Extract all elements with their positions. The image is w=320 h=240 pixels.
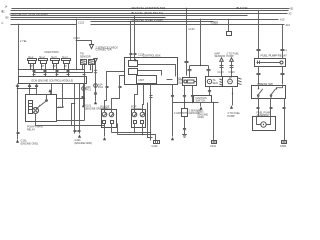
box B1 solenoid [178, 77, 196, 85]
S2 lower wire [228, 88, 241, 118]
svg-text:2 BLK/YEL HOT IN ON OR START: 2 BLK/YEL HOT IN ON OR START [10, 13, 49, 16]
ground arrow above relay [48, 89, 51, 95]
ground connector G101 mid [152, 141, 160, 149]
svg-text:PUMP: PUMP [227, 55, 235, 58]
purge solenoid box SB1 [101, 106, 117, 141]
svg-text:G550: G550 [280, 145, 287, 148]
solenoid ground bus [112, 85, 156, 141]
wire V3 x130 [130, 22, 133, 58]
svg-text:C210: C210 [210, 145, 217, 148]
svg-text:SENSOR: SENSOR [80, 55, 91, 58]
svg-text:SEN: SEN [213, 82, 218, 85]
wire bus L2 YEL/BLK [2, 10, 289, 13]
svg-text:GND): GND) [198, 116, 205, 119]
relay external wires [36, 70, 105, 127]
svg-text:2P: 2P [64, 65, 67, 68]
wire V4 x134 with connector [134, 16, 145, 58]
TW sensor hatched [80, 53, 91, 73]
svg-text:C123: C123 [74, 37, 81, 40]
svg-text:2P: 2P [41, 65, 44, 68]
svg-text:2P: 2P [53, 65, 56, 68]
wire branch to test connector [74, 37, 92, 44]
sensor S2 [223, 77, 242, 87]
injector No.2 [39, 56, 48, 77]
control box T1 [125, 55, 178, 85]
wire V2 x76 [77, 20, 85, 70]
wire bus L3 BLK/YEL [2, 11, 293, 16]
svg-text:2 YEL: 2 YEL [20, 40, 27, 43]
main relay box [26, 95, 57, 132]
svg-text:C123: C123 [189, 28, 196, 31]
svg-text:ECM (ENGINE CONTROL MODULE): ECM (ENGINE CONTROL MODULE) [32, 79, 74, 82]
svg-text:BLK/YEL (MAIN RELAY): BLK/YEL (MAIN RELAY) [132, 11, 164, 15]
wires bus2 to ECM [33, 73, 86, 77]
wire bus L4 [10, 13, 248, 16]
svg-text:FUEL PUMP RELAY: FUEL PUMP RELAY [261, 54, 288, 58]
EACV ground arrow [171, 112, 189, 140]
wire bus L1 WHT/YEL [5, 6, 295, 11]
svg-text:SENSOR: SENSOR [215, 55, 226, 58]
svg-text:PG1: PG1 [86, 89, 92, 92]
svg-text:C: C [2, 22, 4, 25]
wire bus L5 [11, 17, 166, 19]
wire ECM to relay coil [16, 84, 52, 95]
wire V1 x18 [19, 25, 28, 77]
svg-text:2P: 2P [30, 65, 33, 68]
ECM PG2 ground chain [94, 59, 104, 105]
wire bus L8 left [2, 22, 77, 25]
svg-text:A15: A15 [280, 18, 285, 21]
service check connector arrow [90, 45, 119, 52]
box B5 [194, 96, 212, 120]
wire V5 x186 [185, 8, 196, 76]
wire mid low bus [148, 102, 219, 138]
svg-text:UNIT: UNIT [139, 79, 145, 82]
svg-text:PG2: PG2 [98, 86, 104, 89]
svg-text:WHT/YEL (IGNITION SW): WHT/YEL (IGNITION SW) [132, 6, 166, 10]
ground connector G101 right [280, 141, 287, 149]
ECM lower pins [16, 84, 38, 146]
purge solenoid box SB2 [131, 106, 146, 135]
svg-text:INJECTORS: INJECTORS [45, 51, 59, 54]
svg-text:CONNECTOR: CONNECTOR [96, 49, 112, 52]
svg-text:SWITCH: SWITCH [196, 99, 206, 102]
fuel pump box R3 [253, 112, 276, 131]
feed wires above solenoids [105, 72, 144, 110]
ECM PG terminals [82, 84, 109, 111]
connector label C123 at main relay [58, 106, 65, 109]
svg-text:A16: A16 [286, 24, 291, 27]
sensor feed 2 [229, 58, 236, 78]
relay R1 [255, 54, 288, 67]
svg-text:C210: C210 [212, 23, 219, 26]
injector No.1 [28, 56, 37, 77]
wire V7 x228 to connector [227, 20, 232, 36]
injector ECM-side bus [34, 72, 93, 73]
wire right chain x258 [257, 11, 261, 85]
svg-text:C123: C123 [218, 71, 225, 74]
wire right chain x282 [281, 25, 288, 85]
svg-text:(ENGINE GND): (ENGINE GND) [21, 142, 39, 145]
switch box R2 [252, 82, 286, 98]
wires below B1/S1 [171, 85, 211, 137]
svg-text:C123: C123 [78, 21, 85, 24]
sensor S1 [206, 77, 223, 87]
svg-text:RELAY: RELAY [27, 128, 35, 131]
svg-text:GRN/YEL (FUEL PUMP): GRN/YEL (FUEL PUMP) [132, 18, 164, 22]
sensor resistor chain [182, 109, 202, 138]
wire ECM ground chain [74, 84, 93, 145]
svg-text:BLK/YEL: BLK/YEL [237, 6, 249, 10]
wires below R2 [257, 99, 286, 141]
ECM box [19, 77, 87, 84]
ECT sensor hatched [89, 60, 95, 73]
wire bus L8 right [91, 24, 291, 27]
svg-text:GROUND: GROUND [189, 112, 200, 115]
svg-text:PRESS SW: PRESS SW [258, 82, 274, 86]
svg-text:G101: G101 [152, 145, 159, 148]
svg-text:PUMP: PUMP [228, 115, 236, 118]
svg-text:C123: C123 [229, 71, 236, 74]
wire x213 to ground connector [210, 103, 217, 149]
wire bus L7 partial [91, 18, 219, 24]
wire V6 x200 with T-branch [188, 20, 211, 78]
MAP sensor feed arrows [215, 53, 240, 77]
injector No.3 [51, 56, 60, 77]
injector supply bus [18, 69, 91, 70]
wire bus L6 [6, 17, 286, 22]
injector No.4 [62, 56, 71, 77]
svg-text:(ENGINE GND): (ENGINE GND) [75, 142, 93, 145]
